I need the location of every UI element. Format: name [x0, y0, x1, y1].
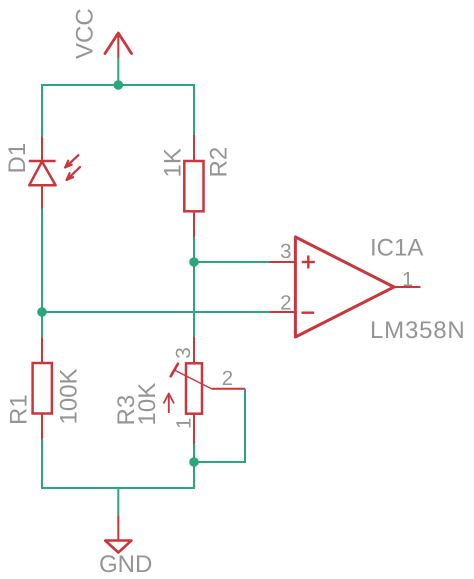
junction node at pin3 wire	[189, 257, 199, 267]
svg-text:R1: R1	[6, 394, 33, 425]
resistor R1	[33, 338, 52, 439]
svg-text:3: 3	[172, 347, 195, 358]
wire terminal 2 loop	[194, 389, 245, 462]
svg-text:GND: GND	[99, 551, 152, 578]
wire bottom rail	[42, 439, 194, 488]
wire VCC stem	[117, 58, 119, 85]
svg-text:100K: 100K	[56, 368, 83, 424]
svg-text:2: 2	[222, 367, 233, 390]
wire left rail mid	[41, 209, 43, 339]
D1 light arrows	[65, 155, 80, 180]
resistor R2	[184, 135, 203, 237]
VCC symbol	[105, 33, 132, 58]
svg-text:1: 1	[402, 268, 413, 291]
wire to op-amp pin 2	[42, 311, 270, 313]
svg-text:10K: 10K	[134, 383, 161, 426]
photodiode D1	[29, 137, 56, 209]
R3 wiper direction arrow	[164, 394, 175, 414]
junction node at pin2 wire	[37, 307, 47, 317]
junction VCC node	[114, 80, 124, 90]
svg-text:2: 2	[280, 292, 291, 315]
svg-text:1: 1	[173, 418, 196, 429]
wire mid rail R2 to R3	[193, 237, 195, 337]
ground symbol	[105, 515, 131, 552]
junction node R3 bottom	[189, 457, 199, 467]
wire top rail	[42, 85, 194, 137]
svg-text:3: 3	[280, 240, 291, 263]
op-amp IC1A	[270, 237, 421, 337]
svg-text:IC1A: IC1A	[370, 234, 423, 261]
wire GND stem	[117, 488, 119, 515]
svg-text:1K: 1K	[160, 148, 187, 177]
svg-text:D1: D1	[4, 143, 31, 174]
svg-text:VCC: VCC	[72, 8, 99, 59]
svg-text:R2: R2	[206, 147, 233, 178]
svg-text:LM358N: LM358N	[370, 317, 466, 344]
wire to op-amp pin 3	[194, 261, 270, 263]
trimmer R3	[171, 337, 245, 444]
